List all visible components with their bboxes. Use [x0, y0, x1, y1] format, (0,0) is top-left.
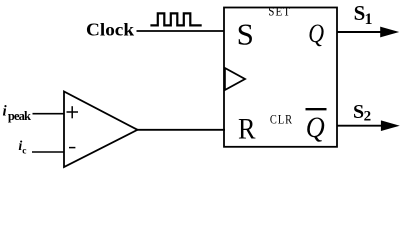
arrowhead S2: [381, 120, 400, 131]
svg-text:Clock: Clock: [86, 20, 134, 40]
svg-text:peak: peak: [8, 109, 31, 123]
svg-text:SET: SET: [268, 5, 291, 19]
wire Q to S1 arrow: [337, 31, 381, 33]
svg-text:CLR: CLR: [270, 113, 293, 127]
svg-text:Q: Q: [308, 19, 324, 48]
wire Q-bar to S2 arrow: [337, 125, 381, 127]
svg-text:Q: Q: [306, 111, 325, 144]
Q-bar overline: [306, 108, 327, 110]
SR flip-flop U1 box: [224, 8, 337, 147]
clock edge triangle: [225, 68, 245, 90]
minus input mark: [69, 147, 75, 149]
svg-text:c: c: [22, 146, 26, 156]
wire comparator output to R input: [137, 129, 225, 131]
wire i_peak to plus input: [33, 113, 65, 115]
svg-text:S: S: [237, 17, 254, 52]
svg-text:R: R: [238, 112, 256, 145]
plus input mark: [67, 111, 79, 113]
wire i_c to minus input: [32, 151, 64, 153]
svg-text:S: S: [353, 101, 364, 123]
clock waveform icon: [150, 13, 201, 25]
wire Clock to S input: [137, 30, 226, 32]
arrowhead S1: [380, 27, 399, 38]
svg-text:1: 1: [365, 11, 373, 28]
svg-text:2: 2: [364, 109, 372, 125]
comparator U2 triangle: [64, 92, 138, 168]
